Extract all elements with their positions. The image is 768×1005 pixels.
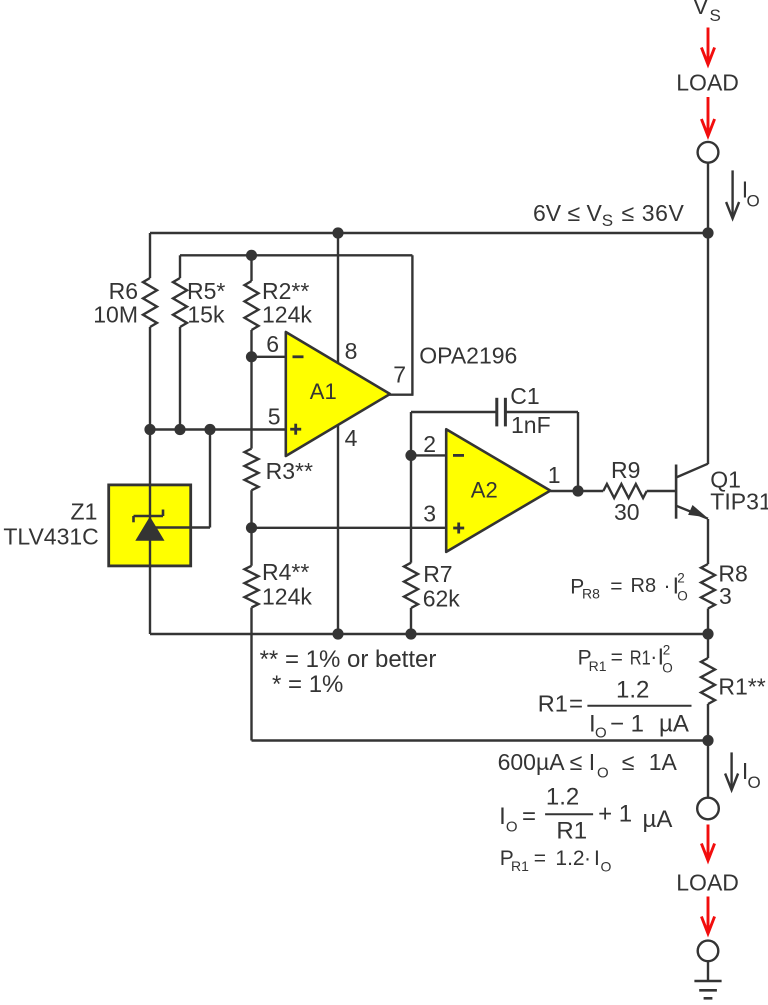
svg-text:R9: R9 bbox=[611, 457, 640, 483]
svg-text:LOAD: LOAD bbox=[676, 70, 739, 96]
svg-text:I: I bbox=[594, 847, 600, 870]
svg-text:2: 2 bbox=[423, 431, 436, 457]
svg-text:1A: 1A bbox=[649, 749, 678, 775]
svg-text:5: 5 bbox=[268, 404, 281, 430]
svg-text:≤: ≤ bbox=[622, 749, 635, 775]
svg-text:TIP31: TIP31 bbox=[710, 488, 768, 514]
svg-text:=: = bbox=[611, 646, 623, 669]
svg-text:R1**: R1** bbox=[718, 673, 765, 699]
svg-text:TLV431C: TLV431C bbox=[3, 523, 98, 549]
svg-text:=: = bbox=[610, 575, 622, 598]
svg-text:V: V bbox=[693, 0, 709, 19]
svg-text:·: · bbox=[664, 575, 671, 598]
svg-text:A1: A1 bbox=[310, 379, 337, 404]
svg-text:R5*: R5* bbox=[187, 278, 225, 304]
svg-text:2: 2 bbox=[677, 571, 685, 586]
svg-text:124k: 124k bbox=[262, 302, 312, 328]
svg-text:3: 3 bbox=[423, 501, 436, 527]
svg-text:10M: 10M bbox=[93, 302, 138, 328]
svg-text:R1: R1 bbox=[630, 646, 651, 669]
svg-text:+ 1: + 1 bbox=[598, 801, 632, 828]
svg-text:R1: R1 bbox=[511, 858, 529, 874]
svg-text:=: = bbox=[534, 847, 546, 870]
svg-text:62k: 62k bbox=[423, 586, 461, 612]
svg-text:1.2: 1.2 bbox=[555, 847, 584, 870]
svg-text:O: O bbox=[748, 773, 761, 792]
svg-text:·: · bbox=[650, 646, 657, 669]
svg-text:OPA2196: OPA2196 bbox=[419, 343, 517, 369]
svg-text:1: 1 bbox=[548, 462, 561, 488]
svg-text:A2: A2 bbox=[471, 477, 498, 502]
svg-text:R7: R7 bbox=[423, 561, 452, 587]
svg-text:124k: 124k bbox=[262, 584, 312, 610]
svg-text:·: · bbox=[584, 847, 591, 870]
svg-text:=: = bbox=[569, 691, 583, 718]
svg-text:4: 4 bbox=[345, 425, 358, 451]
svg-text:O: O bbox=[747, 192, 760, 211]
svg-text:S: S bbox=[710, 6, 721, 25]
svg-text:6: 6 bbox=[266, 331, 279, 357]
svg-text:30: 30 bbox=[614, 499, 640, 525]
svg-text:R1: R1 bbox=[556, 818, 587, 845]
svg-text:O: O bbox=[506, 819, 518, 836]
svg-text:6V ≤ V: 6V ≤ V bbox=[533, 200, 603, 226]
svg-text:R1: R1 bbox=[538, 691, 568, 717]
svg-text:O: O bbox=[662, 661, 673, 676]
svg-text:2: 2 bbox=[663, 643, 671, 658]
svg-text:R1: R1 bbox=[589, 658, 607, 674]
svg-text:LOAD: LOAD bbox=[676, 870, 739, 896]
svg-text:≤ 36V: ≤ 36V bbox=[622, 200, 685, 226]
svg-text:R4**: R4** bbox=[262, 559, 309, 585]
svg-text:1.2: 1.2 bbox=[546, 784, 579, 811]
svg-text:O: O bbox=[677, 589, 688, 604]
svg-text:Z1: Z1 bbox=[71, 498, 98, 524]
svg-text:7: 7 bbox=[393, 362, 406, 388]
svg-text:µA: µA bbox=[643, 806, 673, 833]
svg-text:R3**: R3** bbox=[266, 458, 313, 484]
svg-text:=: = bbox=[522, 803, 536, 830]
svg-text:* = 1%: * = 1% bbox=[272, 671, 343, 698]
svg-text:R2**: R2** bbox=[262, 278, 309, 304]
svg-text:8: 8 bbox=[345, 338, 358, 364]
svg-text:O: O bbox=[597, 765, 609, 782]
svg-text:− 1: − 1 bbox=[610, 711, 644, 738]
svg-text:1.2: 1.2 bbox=[616, 677, 649, 704]
svg-text:600µA ≤ I: 600µA ≤ I bbox=[498, 749, 595, 775]
svg-text:R6: R6 bbox=[109, 278, 138, 304]
svg-text:µA: µA bbox=[659, 711, 689, 738]
svg-text:15k: 15k bbox=[187, 302, 225, 328]
svg-text:R8: R8 bbox=[582, 586, 600, 602]
svg-text:3: 3 bbox=[719, 583, 732, 609]
svg-text:1nF: 1nF bbox=[511, 412, 551, 438]
svg-text:O: O bbox=[601, 859, 612, 875]
svg-text:S: S bbox=[602, 211, 613, 230]
svg-text:C1: C1 bbox=[510, 383, 539, 409]
svg-text:R8: R8 bbox=[631, 575, 657, 597]
svg-text:** = 1% or better: ** = 1% or better bbox=[260, 646, 437, 673]
svg-text:I: I bbox=[499, 803, 506, 830]
svg-text:O: O bbox=[595, 725, 607, 742]
